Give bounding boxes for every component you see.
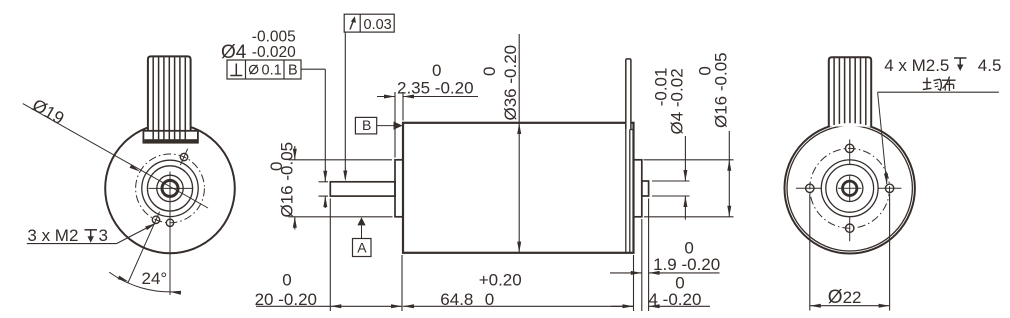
ext line body front face (bottom) — [401, 255, 403, 311]
svg-text:0: 0 — [282, 270, 291, 289]
label jun-bu (evenly spaced, CJK drawn) — [923, 77, 956, 92]
svg-text:0: 0 — [485, 290, 494, 309]
leader line for Ø19 — [23, 104, 208, 208]
svg-text:B: B — [288, 63, 298, 79]
dim line front Ø16 — [293, 146, 297, 230]
label front Ø4 upper tol -0.005 — [252, 29, 296, 46]
svg-text:Ø4 -0.02: Ø4 -0.02 — [668, 68, 687, 134]
ext line body rear face (bottom) — [633, 255, 635, 311]
label rear Ø16 upper tol 0 (rotated) — [696, 66, 715, 75]
datum A box — [353, 239, 372, 257]
front cable collar — [143, 131, 198, 143]
svg-text:0.1: 0.1 — [262, 63, 282, 79]
ext line left hole — [809, 194, 811, 311]
label 20 upper tol 0 — [282, 270, 291, 289]
front boss side view — [395, 160, 403, 217]
rear view shaft circle Ø4 — [843, 181, 857, 195]
feature control frame perpendicularity 0.1 B — [227, 60, 301, 79]
svg-text:B: B — [362, 117, 371, 133]
label 20 -0.20 — [255, 290, 317, 309]
svg-text:2.35 -0.20: 2.35 -0.20 — [397, 79, 474, 98]
FCF leader — [301, 68, 325, 70]
rear view endbell circle — [787, 126, 912, 251]
svg-text:A: A — [357, 239, 367, 255]
svg-text:-0.01: -0.01 — [651, 68, 670, 107]
leader to right hole — [878, 92, 888, 184]
side view flat cable — [626, 59, 631, 129]
svg-text:Ø22: Ø22 — [828, 287, 862, 308]
ext line rear shaft end — [648, 199, 650, 312]
label Ø22 — [828, 287, 862, 308]
ext tick front shaft bottom — [319, 195, 329, 197]
ext line body front face (top) — [402, 92, 404, 121]
svg-text:64.8: 64.8 — [440, 290, 473, 309]
svg-text:4.5: 4.5 — [978, 56, 1002, 75]
label 2.35 -0.20 — [397, 79, 474, 98]
label 24deg — [142, 269, 168, 288]
svg-text:0: 0 — [684, 238, 693, 257]
ext line rear boss top — [644, 159, 734, 161]
rear cable bundle outline — [829, 57, 871, 127]
rear tapped hole M2.5 right — [885, 184, 893, 192]
label 64.8 upper tol +0.20 — [479, 270, 522, 289]
front view boss circle Ø16 — [142, 160, 198, 216]
front view vertical centerline — [169, 172, 171, 296]
24 deg dimension arc — [109, 272, 177, 292]
24 deg arc arrow right — [170, 291, 181, 295]
svg-text:1.9 -0.20: 1.9 -0.20 — [653, 255, 720, 274]
svg-text:3 x M2: 3 x M2 — [27, 226, 78, 245]
svg-text:Ø36 -0.20: Ø36 -0.20 — [501, 45, 520, 121]
dim line 1.9 — [610, 271, 720, 275]
svg-text:Ø16 -0.05: Ø16 -0.05 — [277, 142, 296, 218]
rear tapped hole M2.5 bottom — [846, 224, 854, 232]
rear shaft side view — [642, 181, 649, 196]
dim line 20 — [256, 304, 402, 308]
front cable bundle wires — [153, 57, 185, 139]
front view shaft circle Ø4 — [162, 180, 178, 196]
label front Ø4 lower tol -0.020 — [252, 44, 296, 61]
rear endbell seam line 1 — [625, 123, 627, 252]
label Ø36 upper tol 0 (rotated) — [480, 67, 499, 76]
ext line rear boss face — [641, 219, 643, 311]
svg-text:0.03: 0.03 — [364, 17, 392, 33]
svg-text:20 -0.20: 20 -0.20 — [255, 290, 317, 309]
label rear Ø4 upper tol -0.01 (rotated) — [651, 68, 670, 107]
rear endbell seam line 2 — [629, 130, 631, 253]
ext line boss front face (top) — [394, 92, 396, 158]
rear tapped hole M2.5 left — [806, 184, 814, 192]
rear view boss chamfer circle — [826, 164, 874, 212]
front cable bundle outline — [148, 56, 191, 130]
rear view boss circle Ø16 — [821, 160, 878, 217]
dim line Ø36 — [517, 34, 521, 253]
circular runout frame 0.03 — [344, 14, 394, 33]
rear endbell step line — [630, 129, 634, 131]
ext line rear shaft bottom — [652, 195, 690, 197]
rear tapped hole M2.5 top — [846, 144, 854, 152]
front view bolt circle Ø19 (dash-dot) — [136, 154, 205, 223]
front tapped hole M2 top-right radial tick — [180, 149, 187, 165]
svg-text:Ø16 -0.05: Ø16 -0.05 — [712, 52, 731, 128]
dim line 4 — [611, 304, 710, 308]
label rear Ø16 -0.05 (rotated) — [712, 52, 731, 128]
front view outer circle (motor body Ø36) — [105, 124, 235, 254]
dim line rear Ø16 — [727, 131, 731, 217]
label 4 upper tol 0 — [675, 274, 684, 293]
datum B box — [355, 117, 376, 134]
label front Ø16 -0.05 (rotated) — [277, 142, 296, 218]
label 4 -0.20 — [649, 290, 702, 309]
dim line 64.8 — [403, 304, 634, 308]
label front Ø4 — [221, 42, 247, 63]
ext line front shaft end — [329, 199, 331, 312]
label 4 x M2.5 depth 4.5 — [884, 56, 1001, 75]
svg-text:3: 3 — [99, 226, 108, 245]
front tapped hole M2 bottom — [166, 219, 173, 226]
dim line Ø22 — [810, 304, 890, 308]
runout frame leader — [343, 32, 347, 181]
rear view outer circle (motor body Ø36) — [785, 123, 915, 253]
front view boss chamfer circle — [147, 166, 192, 211]
svg-text:0: 0 — [480, 67, 499, 76]
rear vertical centerline — [849, 139, 851, 241]
ext line rear shaft top — [652, 180, 690, 182]
label 64.8 — [440, 290, 473, 309]
label rear Ø4 -0.02 (rotated) — [668, 68, 687, 134]
rear boss side view — [634, 160, 642, 217]
svg-text:24°: 24° — [142, 269, 168, 288]
ext line front boss bottom — [289, 216, 393, 218]
label underline and leader to hole — [27, 223, 156, 243]
label Ø19 — [29, 95, 68, 129]
24 deg arc arrow left — [118, 276, 129, 282]
svg-text:4 x M2.5: 4 x M2.5 — [884, 56, 949, 75]
dim line front Ø4 — [323, 69, 327, 208]
rear cable bundle wires — [834, 58, 866, 125]
label 2.35 upper tol 0 — [432, 61, 441, 80]
rear view bearing circle — [837, 175, 863, 201]
label 64.8 lower tol 0 — [485, 290, 494, 309]
svg-text:+0.20: +0.20 — [479, 270, 522, 289]
ext tick front shaft top — [319, 181, 329, 183]
front tapped hole M2 bottom-left — [152, 216, 159, 223]
front tapped hole M2 top-right — [180, 153, 187, 160]
label 1.9 upper tol 0 — [684, 238, 693, 257]
front view horizontal centerline — [149, 187, 193, 189]
dim line 2.35 — [377, 95, 478, 99]
front view bearing recess circle — [157, 175, 183, 201]
rear horizontal centerline — [796, 187, 902, 189]
label front Ø16 upper tol 0 (rotated) — [267, 162, 286, 171]
motor body side view — [403, 123, 634, 253]
svg-text:0: 0 — [696, 66, 715, 75]
datum B leader and triangle — [377, 122, 403, 130]
front shaft side view — [330, 182, 395, 196]
label 3 x M2 depth 3 — [27, 226, 108, 245]
svg-text:-0.020: -0.020 — [252, 44, 296, 61]
label Ø36 -0.20 (rotated) — [501, 45, 520, 121]
svg-text:0: 0 — [432, 61, 441, 80]
ext line rear boss bottom — [644, 216, 734, 218]
rear view bolt circle Ø22 (dash-dot) — [810, 148, 890, 228]
svg-text:0: 0 — [267, 162, 286, 171]
svg-text:-0.005: -0.005 — [252, 29, 296, 46]
dim line rear Ø4 — [683, 136, 687, 220]
svg-text:4 -0.20: 4 -0.20 — [649, 290, 702, 309]
label 4xM2.5 underline — [878, 91, 999, 93]
label 1.9 -0.20 — [653, 255, 720, 274]
svg-text:0: 0 — [675, 274, 684, 293]
24 deg dimension line through bottom-left hole — [128, 212, 160, 283]
ext line front boss top — [289, 159, 393, 161]
datum A triangle — [357, 217, 365, 238]
ext line right hole — [889, 194, 891, 311]
